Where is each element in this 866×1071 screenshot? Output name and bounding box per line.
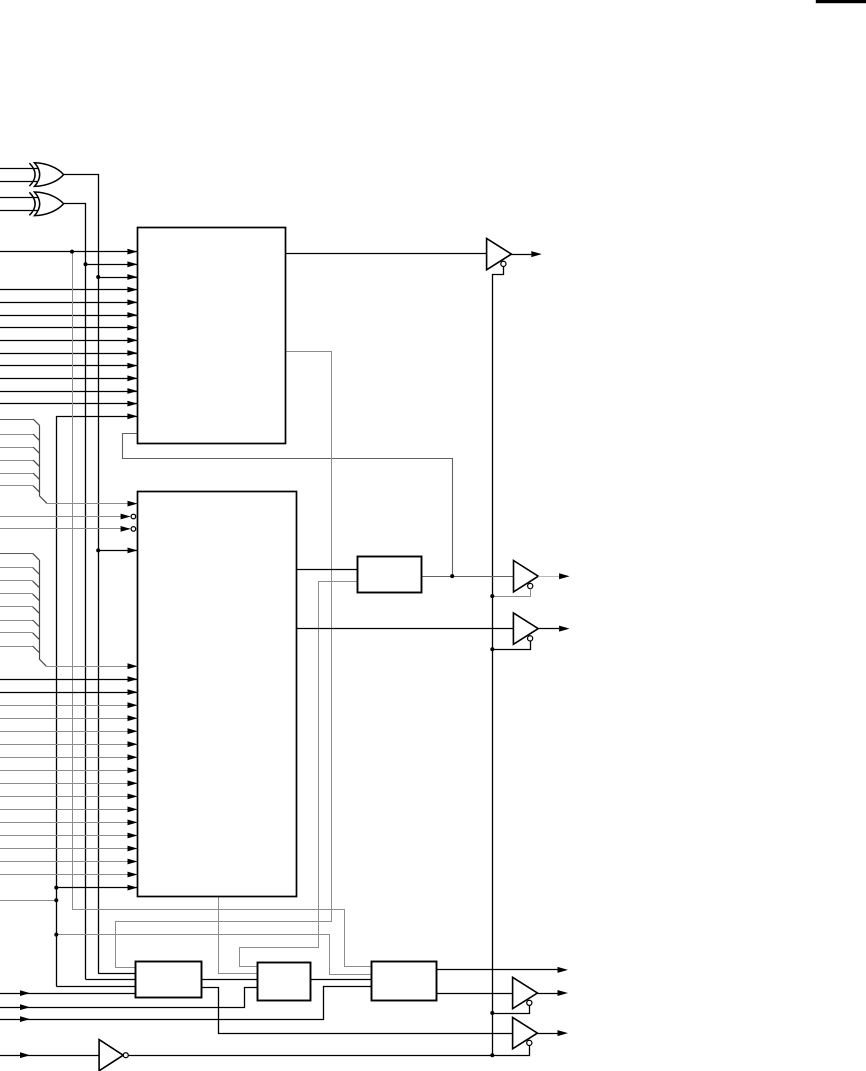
wire bus2 taper 2	[33, 568, 40, 575]
wire XOR1 vertical to box A input 2	[98, 973, 136, 975]
arrow block2 in11	[128, 741, 138, 747]
XOR gate U7 (top)	[29, 163, 35, 186]
wire block1 input row 14 from x56 net	[56, 416, 137, 418]
wire bus2 line 3	[0, 580, 33, 582]
arrow block2 in20	[128, 859, 138, 865]
wire G4 gray: x56 net to box C	[56, 935, 371, 975]
wire bus1 taper 1	[33, 419, 40, 426]
box U14 (bottom B)	[258, 963, 311, 1001]
wire U3 output	[538, 628, 559, 630]
inverting bubble	[131, 527, 136, 532]
wire U4 output	[537, 993, 557, 995]
arrow block2 in21	[128, 872, 138, 878]
wire U2 enable jog	[492, 589, 530, 597]
arrow block2 in15	[128, 794, 138, 800]
wire block2 output to box M input 1	[297, 569, 358, 571]
wire U1 enable vertical x=492.3	[493, 267, 504, 1056]
wire bus1 line 5	[0, 473, 33, 475]
arrow block2 in7	[128, 689, 138, 695]
wire bus2 line 8	[0, 646, 33, 648]
arrow block2 in10	[128, 728, 138, 734]
wire block1 input row 8	[0, 340, 137, 342]
page header bar	[816, 0, 866, 3]
junction row2	[84, 262, 88, 266]
wire bus2 taper 5	[33, 607, 40, 614]
tri-state buffer U4	[513, 977, 538, 1008]
arrow block1 in8	[127, 337, 137, 343]
inverter U6	[99, 1040, 123, 1071]
wire block2 input row 21	[0, 874, 138, 876]
arrow block1 in14	[127, 413, 137, 419]
junction U5 enable / U6 output	[490, 1053, 494, 1057]
arrow block2 in9	[128, 715, 138, 721]
wire bus1 line 4	[0, 460, 33, 462]
arrow block2 in4	[128, 548, 138, 554]
arrow block2 in18	[128, 833, 138, 839]
U3 enable bubble	[528, 636, 533, 641]
wire block2 input row 7	[0, 692, 138, 694]
box U12 (middle small)	[358, 557, 422, 593]
junction x56/row887	[54, 886, 58, 890]
arrow block2 in6	[128, 676, 138, 682]
wire U2 output	[538, 576, 559, 578]
wire bus2 taper 4	[33, 594, 40, 601]
wire bus1 line 6	[0, 485, 33, 487]
junction on row 1 at gray vertical	[70, 250, 74, 254]
U4 enable bubble	[527, 1000, 532, 1005]
XOR gate U8 (bottom)	[29, 192, 35, 215]
tri-state buffer U3	[513, 613, 538, 644]
wire block1 input row 12	[0, 391, 137, 393]
junction U4 enable	[490, 1011, 494, 1015]
wire U5 output	[537, 1033, 557, 1035]
wire G1 gray net: block1 row1 down and over to box C	[73, 252, 372, 967]
arrow block1 in3	[127, 274, 137, 280]
wire W1: block1 left edge to buffer U2 input node	[123, 434, 453, 577]
wire G5 gray: block2 bottom to box B input 2	[219, 897, 258, 974]
arrow	[121, 514, 131, 520]
arrow block1 in5	[127, 299, 137, 305]
wire block2 input row 19	[0, 848, 138, 850]
wire block2 input 4 from XOR1 net	[98, 550, 137, 552]
arrow on U6 input	[20, 1052, 30, 1058]
tri-state buffer U5	[513, 1017, 538, 1048]
wire U6 output to enable rail	[128, 1055, 492, 1057]
U6 output bubble	[123, 1053, 128, 1058]
wire XOR1 input B	[0, 181, 38, 183]
wire block2 input row 10	[0, 731, 138, 733]
wire box M output to buffer U2	[421, 576, 513, 578]
arrow U3 out	[559, 626, 570, 632]
junction U2 enable	[490, 594, 494, 598]
arrow block2 in13	[128, 767, 138, 773]
arrow block1 in9	[127, 350, 137, 356]
arrow block1 in1	[127, 249, 137, 255]
arrow on line	[20, 1016, 30, 1022]
wire block2 input row 15	[0, 796, 138, 798]
wire block2 input row 20	[0, 861, 138, 863]
wire box B output to box C	[311, 979, 371, 981]
logic block U11 (lower large)	[138, 492, 297, 897]
wire input line to box B input 4	[0, 988, 257, 1008]
arrow out	[558, 967, 569, 973]
arrow on line	[20, 990, 30, 996]
wire box C output 1 with arrow	[436, 969, 557, 971]
wire bus2 taper 3	[33, 581, 40, 588]
arrow block1 in4	[127, 287, 137, 293]
wire block2 input row 8	[0, 705, 138, 707]
wire bus2 taper 6	[33, 620, 40, 627]
wire U1 output	[511, 254, 531, 256]
wire block2 output to buffer U3	[297, 628, 514, 630]
arrow block2 in17	[128, 820, 138, 826]
wire XOR1 input A	[0, 168, 38, 170]
arrow block1 in7	[127, 325, 137, 331]
wire G3 gray: block1 right edge to box A input 1	[116, 352, 332, 968]
junction U3 enable	[490, 647, 494, 651]
arrow block2 in12	[128, 754, 138, 760]
wire U3 enable jog	[492, 641, 530, 650]
wire input line to box A input 5	[0, 993, 136, 995]
wire bus2 taper 7	[33, 633, 40, 640]
wire x56 net vertical	[56, 416, 58, 986]
wire block2 input row 11	[0, 744, 138, 746]
wire XOR2 input B	[0, 210, 38, 212]
wire box C output 2 to buffer U4	[436, 993, 512, 995]
U5 enable bubble	[527, 1040, 532, 1045]
wire bus2 taper 1	[33, 553, 40, 560]
wire U4 enable jog	[492, 1005, 529, 1013]
wire block2 input row 13	[0, 770, 138, 772]
wire x56 to box A input 4	[56, 986, 135, 988]
wire block1 input row 11	[0, 378, 137, 380]
wire bus1 line 1	[0, 419, 33, 421]
wire bus1 taper 5	[33, 473, 40, 480]
arrow on line	[20, 1004, 30, 1010]
U2 enable bubble	[528, 583, 533, 588]
wire bus2 line 2	[0, 567, 33, 569]
tri-state buffer U2	[514, 561, 539, 592]
wire block2 input row 18	[0, 835, 138, 837]
junction row3	[96, 275, 100, 279]
wire XOR1 output to vertical	[64, 175, 99, 974]
wire block2 input row 14	[0, 783, 138, 785]
wire U5 enable jog	[492, 1046, 529, 1056]
wire bus2 to block2 input 5	[46, 666, 137, 668]
wire input line to box C input 3	[0, 987, 371, 1020]
wire XOR2 input A	[0, 197, 38, 199]
wire block1 input row 7	[0, 327, 137, 329]
arrow	[121, 526, 131, 532]
wire box A output 2 to buffer U5	[201, 988, 512, 1034]
arrow U1 out	[531, 251, 542, 257]
wire bus2 line 1	[0, 553, 33, 555]
arrow block2 in14	[128, 780, 138, 786]
box U15 (bottom C)	[372, 962, 437, 1001]
wire bus1 taper 6	[33, 486, 40, 493]
wire bus1 line 3	[0, 447, 33, 449]
arrow U5 out	[558, 1030, 569, 1036]
arrow block2 in8	[128, 702, 138, 708]
wire G2 gray: box M input 2 to box B input 1	[240, 582, 358, 967]
wire block2 input row 9	[0, 718, 138, 720]
junction M output / W1	[450, 574, 454, 578]
arrow block1 in12	[127, 388, 137, 394]
arrow block1 in6	[127, 312, 137, 318]
wire block1 input row 13	[0, 403, 137, 405]
arrow block1 in2	[127, 261, 137, 267]
wire bus2 taper 8	[33, 646, 40, 653]
wire block2 input row 12	[0, 757, 138, 759]
wire bus2 line 5	[0, 606, 33, 608]
wire block1 output to buffer U1	[286, 253, 487, 255]
wire block2 input row 6	[0, 679, 138, 681]
wire bus2 line 7	[0, 632, 33, 634]
wire block1 input row 1	[0, 251, 137, 253]
arrow block1 in10	[127, 363, 137, 369]
arrow block1 in11	[127, 375, 137, 381]
inverting bubble	[131, 514, 136, 519]
wire bus2 line 6	[0, 620, 33, 622]
wire XOR2 output to vertical	[64, 204, 86, 980]
logic block U10 (upper)	[138, 228, 286, 444]
tri-state buffer U1	[487, 238, 512, 269]
wire bus1 taper 4	[33, 460, 40, 467]
wire block1 input row 10	[0, 365, 137, 367]
wire bus1 taper 3	[33, 447, 40, 454]
junction	[96, 548, 100, 552]
arrow block2 in22	[128, 885, 138, 891]
wire XOR2 vertical to box A input 3	[86, 979, 136, 981]
wire box A output 1 to box B	[201, 979, 257, 981]
wire left input to x56 net	[0, 900, 56, 902]
junction x56/left gray	[54, 898, 58, 902]
wire block2 input row 17	[0, 822, 138, 824]
wire bus1 taper 2	[33, 434, 40, 441]
arrow block1 in13	[127, 401, 137, 407]
wire block1 input row 6	[0, 315, 137, 317]
wire bus1 to block2 input 1	[47, 503, 138, 505]
box U13 (bottom A)	[136, 962, 202, 998]
junction x56/G4	[54, 933, 58, 937]
wire U6 input	[0, 1055, 99, 1057]
wire block1 input row 2 from XOR2 net	[86, 264, 138, 266]
arrow U4 out	[558, 990, 569, 996]
arrow block2 in16	[128, 807, 138, 813]
arrow block2 in1	[128, 501, 138, 507]
arrow block2 in19	[128, 846, 138, 852]
bus1 spine	[40, 426, 47, 504]
wire block2 bubbled input y528.9	[0, 528, 130, 530]
bus2 spine	[40, 560, 47, 666]
wire bus1 line 2	[0, 434, 33, 436]
wire block1 input row 9	[0, 353, 137, 355]
wire block1 input row 4	[0, 289, 137, 291]
wire block1 input row 3 from XOR1 net	[98, 277, 137, 279]
wire block2 input row 16	[0, 809, 138, 811]
arrow block2 in5	[128, 663, 138, 669]
wire bus2 line 4	[0, 593, 33, 595]
wire block1 input row 5	[0, 302, 137, 304]
wire block2 bubbled input y516.5	[0, 516, 130, 518]
arrow U2 out	[559, 573, 570, 579]
U1 enable bubble	[501, 261, 506, 266]
wire block2 input row 22	[56, 887, 137, 889]
